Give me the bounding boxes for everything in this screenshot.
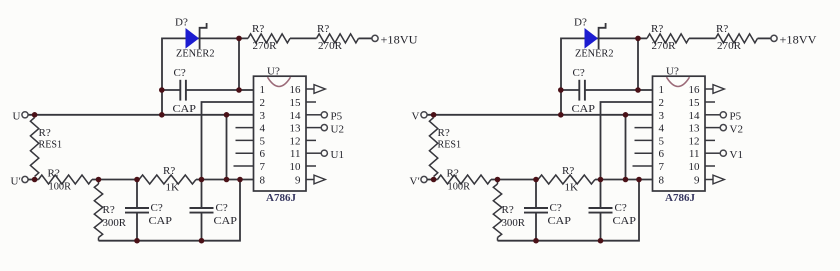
svg-text:R?: R? bbox=[39, 127, 51, 139]
node junction at (560.8,90) (right) bbox=[558, 87, 564, 93]
resistor R? 1K (right) bbox=[538, 165, 595, 194]
pin 16 output arrow (left) bbox=[306, 85, 325, 94]
svg-text:12: 12 bbox=[290, 135, 301, 147]
op-amp U? A786J (left) bbox=[254, 66, 307, 205]
wire: lower rail segments (left) bbox=[28, 179, 39, 181]
terminal V (upper input, right) bbox=[412, 111, 428, 123]
pin 11 terminal U1 (left) bbox=[306, 149, 344, 161]
svg-text:P5: P5 bbox=[331, 111, 343, 123]
svg-text:U′: U′ bbox=[11, 176, 21, 188]
svg-text:CAP: CAP bbox=[173, 103, 197, 115]
pin 16 output arrow (right) bbox=[705, 85, 724, 94]
terminal U&#8242; (lower input, left) bbox=[11, 176, 29, 188]
pin 11 terminal V1 (right) bbox=[705, 149, 743, 161]
svg-text:14: 14 bbox=[290, 110, 302, 122]
svg-text:CAP: CAP bbox=[613, 215, 637, 227]
svg-text:270R: 270R bbox=[652, 40, 677, 52]
svg-text:RES1: RES1 bbox=[39, 139, 63, 151]
capacitor C? CAP (second bottom, right) bbox=[589, 180, 637, 241]
resistor R? 300R (right) bbox=[493, 180, 525, 241]
node junction at (34.6,179.5) (left) bbox=[32, 177, 38, 183]
svg-text:R?: R? bbox=[562, 165, 574, 177]
svg-text:C?: C? bbox=[550, 202, 562, 214]
resistor R? 270R (second, right) bbox=[716, 23, 758, 52]
svg-text:A786J: A786J bbox=[665, 192, 695, 204]
node junction at (161.8,90) (left) bbox=[159, 87, 165, 93]
capacitor C? CAP (second bottom, left) bbox=[190, 180, 238, 241]
node junction at (137,179.5) (left) bbox=[134, 177, 140, 183]
svg-text:RES1: RES1 bbox=[438, 139, 462, 151]
wire between 270R resistors (left) bbox=[290, 37, 317, 39]
svg-text:V1: V1 bbox=[730, 149, 743, 161]
capacitor C? CAP (top, left) bbox=[162, 67, 239, 115]
svg-text:14: 14 bbox=[689, 110, 701, 122]
resistor R? 270R (first, right) bbox=[647, 23, 689, 52]
wire: zener anode loop (node rightA) bbox=[561, 38, 647, 114]
svg-text:A786J: A786J bbox=[266, 192, 296, 204]
svg-text:R?: R? bbox=[438, 127, 450, 139]
pin 14 terminal P5 (right) bbox=[705, 111, 742, 123]
svg-text:D?: D? bbox=[574, 17, 587, 29]
node junction at (239,90) (left) bbox=[236, 87, 242, 93]
resistor R? 270R (first, left) bbox=[248, 23, 290, 52]
svg-text:CAP: CAP bbox=[548, 215, 572, 227]
pin 5 stub (left) bbox=[236, 139, 254, 141]
node junction at (497.5,179.5) (right) bbox=[495, 177, 501, 183]
node junction at (98.5,179.5) (left) bbox=[96, 177, 102, 183]
svg-text:13: 13 bbox=[689, 123, 701, 135]
wire: lower rail mid (left) bbox=[92, 179, 139, 181]
svg-text:U?: U? bbox=[267, 66, 280, 78]
svg-text:C?: C? bbox=[615, 202, 627, 214]
svg-text:300R: 300R bbox=[103, 217, 127, 229]
svg-text:3: 3 bbox=[659, 110, 665, 122]
node junction at (201.5,240.7) (left) bbox=[199, 238, 205, 244]
wire: lower rail segments (right) bbox=[427, 179, 438, 181]
resistor R? 270R (second, left) bbox=[317, 23, 359, 52]
svg-text:15: 15 bbox=[689, 97, 701, 109]
wire: pin 2 to lower rail (right) bbox=[601, 102, 653, 180]
pin 4 stub (right) bbox=[635, 127, 653, 129]
svg-text:U1: U1 bbox=[331, 149, 344, 161]
zener diode D? ZENER2 (right) bbox=[574, 17, 614, 60]
svg-text:R?: R? bbox=[317, 23, 329, 35]
node junction at (34.6,114.8) (left) bbox=[32, 112, 38, 118]
node junction at (226.5,114.8) (left) bbox=[224, 112, 230, 118]
svg-text:9: 9 bbox=[694, 175, 700, 187]
wire: lower rail mid (right) bbox=[491, 179, 538, 181]
svg-text:270R: 270R bbox=[318, 40, 343, 52]
pin 15 stub (left) bbox=[306, 101, 316, 103]
svg-text:R?: R? bbox=[103, 204, 115, 216]
node junction at (560.8,114.8) (right) bbox=[558, 112, 564, 118]
svg-text:U?: U? bbox=[666, 66, 679, 78]
terminal V&#8242; (lower input, right) bbox=[410, 176, 428, 188]
svg-text:15: 15 bbox=[290, 97, 302, 109]
wire: pin 2 to lower rail (left) bbox=[202, 102, 254, 180]
node junction at (226.5,179.5) (left) bbox=[224, 177, 230, 183]
terminal U (upper input, left) bbox=[13, 111, 29, 123]
pin 6 stub (left) bbox=[236, 152, 254, 154]
svg-text:ZENER2: ZENER2 bbox=[176, 48, 215, 60]
wire: pin 1 stub (right) bbox=[638, 89, 653, 91]
node junction at (625.5,114.8) (right) bbox=[623, 112, 629, 118]
capacitor C? CAP (top, right) bbox=[561, 67, 638, 115]
svg-text:CAP: CAP bbox=[214, 215, 238, 227]
node junction at (600.5,240.7) (right) bbox=[598, 238, 604, 244]
node junction at (201.5,179.5) (left) bbox=[199, 177, 205, 183]
svg-text:R?: R? bbox=[651, 23, 663, 35]
pin 10 stub (right) bbox=[705, 165, 715, 167]
svg-text:270R: 270R bbox=[717, 40, 742, 52]
wire: lower rail to pin 8 (right) bbox=[595, 179, 653, 181]
pin 13 terminal V2 (right) bbox=[705, 123, 743, 135]
wire between 270R resistors (right) bbox=[689, 37, 716, 39]
svg-text:+18VV: +18VV bbox=[780, 33, 817, 47]
svg-text:5: 5 bbox=[659, 135, 665, 147]
svg-text:4: 4 bbox=[659, 123, 665, 135]
zener diode D? ZENER2 (left) bbox=[175, 17, 215, 60]
node junction at (433.6,179.5) (right) bbox=[431, 177, 437, 183]
node junction at (625.5,179.5) (right) bbox=[623, 177, 629, 183]
terminal +18VU bbox=[372, 33, 418, 47]
svg-text:+18VU: +18VU bbox=[381, 33, 418, 47]
svg-text:16: 16 bbox=[689, 84, 701, 96]
svg-text:R?: R? bbox=[716, 23, 728, 35]
resistor R? RES1 (right) bbox=[429, 118, 461, 177]
svg-text:9: 9 bbox=[295, 175, 301, 187]
svg-text:C?: C? bbox=[573, 67, 585, 79]
wire: pin 1 stub (left) bbox=[239, 89, 254, 91]
svg-text:1K: 1K bbox=[166, 182, 180, 194]
svg-text:6: 6 bbox=[260, 148, 266, 160]
wire: zener cathode down to pin 1 (left) bbox=[238, 38, 240, 90]
svg-text:R?: R? bbox=[447, 168, 459, 180]
resistor R? 100R (left) bbox=[39, 168, 93, 193]
svg-text:4: 4 bbox=[260, 123, 266, 135]
pin 10 stub (left) bbox=[306, 165, 316, 167]
pin 9 output arrow (left) bbox=[306, 175, 325, 184]
pin 14 terminal P5 (left) bbox=[306, 111, 343, 123]
node junction at (536,240.7) (right) bbox=[533, 238, 539, 244]
svg-text:3: 3 bbox=[260, 110, 266, 122]
pin 9 output arrow (right) bbox=[705, 175, 724, 184]
pin 4 stub (left) bbox=[236, 127, 254, 129]
svg-text:11: 11 bbox=[290, 148, 301, 160]
resistor R? 1K (left) bbox=[139, 165, 196, 194]
svg-text:C?: C? bbox=[174, 67, 186, 79]
node junction at (239,38.4) (left) bbox=[236, 36, 242, 42]
pin 13 terminal U2 (left) bbox=[306, 123, 344, 135]
node junction at (240,179.5) (left) bbox=[237, 177, 243, 183]
op-amp U? A786J (right) bbox=[653, 66, 706, 205]
wire: rail tie vertical (left) bbox=[226, 115, 228, 180]
svg-text:5: 5 bbox=[260, 135, 266, 147]
node junction at (639,179.5) (right) bbox=[636, 177, 642, 183]
pin 5 stub (right) bbox=[635, 139, 653, 141]
svg-text:2: 2 bbox=[659, 97, 665, 109]
svg-text:6: 6 bbox=[659, 148, 665, 160]
svg-text:R?: R? bbox=[163, 165, 175, 177]
svg-text:V′: V′ bbox=[410, 176, 420, 188]
svg-text:16: 16 bbox=[290, 84, 302, 96]
wire to supply terminal (left) bbox=[359, 37, 372, 39]
resistor R? 300R (left) bbox=[94, 180, 126, 241]
svg-text:P5: P5 bbox=[730, 111, 742, 123]
pin 15 stub (right) bbox=[705, 101, 715, 103]
svg-text:R?: R? bbox=[252, 23, 264, 35]
wire: upper input rail to pin 3 (node rightin) bbox=[427, 114, 653, 116]
node junction at (536,179.5) (right) bbox=[533, 177, 539, 183]
wire: zener cathode down to pin 1 (right) bbox=[637, 38, 639, 90]
svg-text:10: 10 bbox=[290, 161, 302, 173]
node junction at (161.8,114.8) (left) bbox=[159, 112, 165, 118]
pin 12 stub (right) bbox=[705, 139, 715, 141]
svg-text:1: 1 bbox=[260, 84, 266, 96]
node junction at (433.6,114.8) (right) bbox=[431, 112, 437, 118]
terminal +18VV bbox=[771, 33, 817, 47]
svg-text:12: 12 bbox=[689, 135, 700, 147]
svg-text:U: U bbox=[13, 111, 21, 123]
node junction at (600.5,179.5) (right) bbox=[598, 177, 604, 183]
capacitor C? CAP (first bottom, right) bbox=[524, 180, 571, 241]
wire: bottom return rail (right) bbox=[498, 180, 640, 241]
svg-text:7: 7 bbox=[260, 161, 266, 173]
svg-text:V2: V2 bbox=[730, 123, 743, 135]
svg-text:100R: 100R bbox=[448, 181, 471, 193]
svg-text:100R: 100R bbox=[49, 181, 72, 193]
capacitor C? CAP (first bottom, left) bbox=[125, 180, 172, 241]
svg-text:D?: D? bbox=[175, 17, 188, 29]
IC notch (left) bbox=[268, 77, 291, 86]
pin 7 stub (left) bbox=[234, 165, 254, 167]
wire: upper input rail to pin 3 (node leftin) bbox=[28, 114, 254, 116]
svg-text:13: 13 bbox=[290, 123, 302, 135]
wire to supply terminal (right) bbox=[758, 37, 771, 39]
svg-text:U2: U2 bbox=[331, 123, 344, 135]
svg-text:1: 1 bbox=[659, 84, 665, 96]
svg-text:CAP: CAP bbox=[149, 215, 173, 227]
svg-text:11: 11 bbox=[689, 148, 700, 160]
wire: lower rail to pin 8 (left) bbox=[196, 179, 254, 181]
svg-text:10: 10 bbox=[689, 161, 701, 173]
resistor R? RES1 (left) bbox=[30, 118, 62, 177]
svg-text:V: V bbox=[412, 111, 420, 123]
wire: rail tie vertical (right) bbox=[625, 115, 627, 180]
svg-text:8: 8 bbox=[260, 175, 266, 187]
node junction at (638,38.4) (right) bbox=[635, 36, 641, 42]
wire: zener anode loop (node leftA) bbox=[162, 38, 248, 114]
node junction at (638,90) (right) bbox=[635, 87, 641, 93]
svg-text:CAP: CAP bbox=[572, 103, 596, 115]
pin 6 stub (right) bbox=[635, 152, 653, 154]
svg-text:R?: R? bbox=[48, 168, 60, 180]
wire: bottom return rail (left) bbox=[99, 180, 241, 241]
svg-text:7: 7 bbox=[659, 161, 665, 173]
svg-text:2: 2 bbox=[260, 97, 266, 109]
pin 12 stub (left) bbox=[306, 139, 316, 141]
pin 7 stub (right) bbox=[633, 165, 653, 167]
svg-text:300R: 300R bbox=[502, 217, 526, 229]
IC notch (right) bbox=[667, 77, 690, 86]
node junction at (137,240.7) (left) bbox=[134, 238, 140, 244]
svg-text:1K: 1K bbox=[565, 182, 579, 194]
svg-text:C?: C? bbox=[151, 202, 163, 214]
svg-text:8: 8 bbox=[659, 175, 665, 187]
svg-text:ZENER2: ZENER2 bbox=[575, 48, 614, 60]
resistor R? 100R (right) bbox=[438, 168, 492, 193]
svg-text:R?: R? bbox=[502, 204, 514, 216]
svg-text:C?: C? bbox=[216, 202, 228, 214]
svg-text:270R: 270R bbox=[253, 40, 278, 52]
